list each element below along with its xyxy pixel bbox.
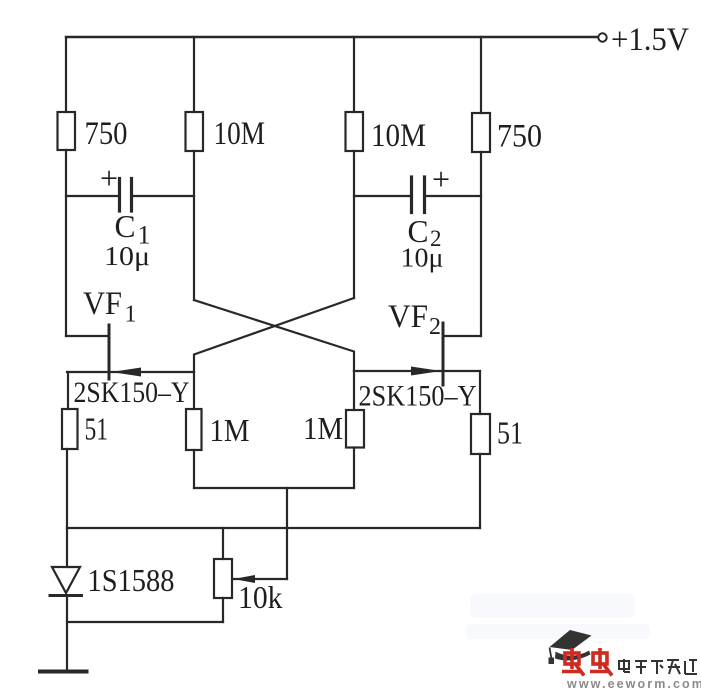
wire diode to ground bbox=[66, 596, 68, 671]
bottom return wire bbox=[67, 621, 223, 623]
svg-text:VF: VF bbox=[83, 286, 122, 322]
svg-text:1S1588: 1S1588 bbox=[88, 563, 175, 598]
svg-text:+: + bbox=[100, 160, 118, 196]
svg-text:10k: 10k bbox=[238, 579, 283, 615]
source bus bbox=[67, 527, 480, 529]
transistor Q1 2SK150-Y left : channel bar bbox=[108, 325, 111, 379]
svg-text:750: 750 bbox=[85, 116, 128, 152]
transistor Q2 drain wire bbox=[443, 335, 481, 337]
ground bbox=[40, 670, 87, 674]
diode VD 1S1588 bbox=[52, 567, 80, 593]
transistor Q2 gate arrow bbox=[411, 367, 441, 376]
wire source bus to diode bbox=[66, 528, 68, 567]
svg-text:+1.5V: +1.5V bbox=[611, 22, 689, 58]
transistor Q1 drain wire bbox=[66, 335, 109, 337]
crossover wire A bbox=[194, 300, 354, 371]
wire gate node to R6 bbox=[193, 372, 195, 409]
transistor Q2 gate/source line bbox=[354, 370, 480, 372]
label 2SK150-Y left bbox=[74, 376, 190, 409]
svg-text:10M: 10M bbox=[371, 118, 426, 154]
label 2SK150-Y right bbox=[359, 380, 477, 413]
svg-text:www.eeworm.com: www.eeworm.com bbox=[566, 677, 701, 689]
svg-text:2SK150–Y: 2SK150–Y bbox=[74, 376, 190, 409]
resistor R5 51 left bbox=[62, 409, 78, 449]
watermark graduation cap logo bbox=[549, 630, 592, 664]
pot wiper arrow bbox=[234, 575, 256, 583]
wire R6 bottom to 1M bus bbox=[193, 450, 195, 488]
transistor Q1 gate/source line bbox=[67, 371, 194, 373]
wire R5 bottom to source bus bbox=[66, 449, 68, 528]
svg-text:+: + bbox=[432, 161, 450, 197]
1M bottom bus bbox=[194, 487, 354, 489]
resistor R4 750 right bbox=[472, 113, 490, 152]
wire R1 bottom to node VF1 drain bbox=[65, 150, 67, 336]
svg-text:51: 51 bbox=[85, 411, 109, 447]
power rail +1.5V bbox=[66, 36, 598, 38]
crossover wire B bbox=[194, 298, 354, 372]
svg-text:2: 2 bbox=[429, 314, 441, 340]
svg-text:1M: 1M bbox=[210, 412, 250, 448]
potentiometer RP 10k bbox=[214, 559, 232, 598]
power terminal circle bbox=[598, 33, 606, 41]
transistor Q2 2SK150-Y right : channel bar bbox=[442, 323, 445, 385]
svg-text:10M: 10M bbox=[214, 116, 266, 152]
svg-text:C: C bbox=[115, 209, 136, 244]
svg-text:750: 750 bbox=[497, 119, 542, 155]
wire R3 bottom to crossover bbox=[353, 151, 355, 298]
wire rail to R3 top bbox=[353, 37, 355, 112]
wire rail to R1 top bbox=[65, 37, 67, 112]
wire Q2 source down bbox=[479, 371, 481, 414]
resistor R7 1M right bbox=[346, 410, 364, 448]
faint ghost watermark bbox=[466, 594, 650, 639]
svg-text:10μ: 10μ bbox=[104, 240, 150, 271]
wire R4 bottom to node VF2 drain bbox=[480, 152, 482, 336]
svg-text:VF: VF bbox=[388, 299, 428, 335]
capacitor C1 bbox=[66, 195, 118, 197]
svg-text:2SK150–Y: 2SK150–Y bbox=[359, 380, 477, 413]
watermark red chongchong characters bbox=[562, 648, 612, 676]
svg-text:10μ: 10μ bbox=[401, 242, 444, 273]
wire rail to R4 top bbox=[480, 37, 482, 113]
wire R7 bottom to 1M bus bbox=[353, 448, 355, 489]
label VF2 bbox=[388, 299, 441, 340]
svg-text:1: 1 bbox=[125, 302, 137, 328]
resistor R6 1M left bbox=[186, 409, 202, 450]
watermark url bbox=[566, 677, 701, 689]
wire gate node to R7 bbox=[353, 371, 355, 410]
wire pot bottom bbox=[222, 598, 224, 622]
label VF1 bbox=[83, 286, 137, 328]
label +1.5V bbox=[611, 22, 689, 58]
watermark chinese site name bbox=[619, 659, 697, 674]
svg-text:1M: 1M bbox=[303, 410, 343, 446]
capacitor C2 bbox=[354, 195, 410, 197]
resistor R2 10M left bbox=[186, 112, 204, 151]
transistor Q1 gate arrow bbox=[111, 368, 141, 377]
svg-text:51: 51 bbox=[497, 415, 523, 451]
resistor R8 51 right bbox=[471, 414, 490, 454]
resistor R1 750 left bbox=[58, 112, 76, 150]
wire R2 bottom to crossover bbox=[193, 151, 195, 300]
wire rail to R2 top bbox=[193, 37, 195, 112]
wire 1M bus to pot wiper node bbox=[286, 488, 288, 579]
resistor R3 10M right bbox=[346, 112, 364, 151]
wire Q1 source down bbox=[67, 372, 69, 409]
wire R8 bottom to source bus bbox=[479, 454, 481, 528]
pot wiper wire bbox=[234, 578, 287, 580]
wire source bus to pot top bbox=[222, 528, 224, 559]
